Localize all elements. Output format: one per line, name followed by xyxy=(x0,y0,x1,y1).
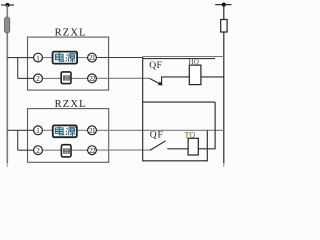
breaker cabinet left edge xyxy=(142,57,144,161)
breaker cabinet top edge xyxy=(143,58,215,60)
terminal circle 21 bottom xyxy=(88,126,97,135)
breaker cabinet bottom edge xyxy=(143,160,208,162)
svg-text:RZXL: RZXL xyxy=(55,27,87,38)
svg-text:HQ: HQ xyxy=(189,58,200,66)
svg-text:2: 2 xyxy=(36,146,40,155)
wire bus to pin1 bottom xyxy=(7,129,34,131)
power module box 电源 top xyxy=(53,52,78,64)
wire pin1 to pin21 internal bottom xyxy=(38,129,92,131)
terminal circle 22 top xyxy=(88,74,97,83)
svg-text:QF: QF xyxy=(150,130,164,140)
breaker cabinet right edge lower xyxy=(206,130,208,161)
svg-text:RZXL: RZXL xyxy=(55,99,87,110)
wire pin21 bottom to right rail xyxy=(92,129,224,131)
terminal circle 22 bottom xyxy=(88,146,97,155)
svg-text:22: 22 xyxy=(89,75,96,83)
wire top-right stub xyxy=(215,4,231,6)
wire tap to pin2 top xyxy=(18,77,34,79)
relay RZXL top box xyxy=(28,37,109,90)
wire tap vertical top xyxy=(17,58,19,79)
wire top-left stub xyxy=(1,4,14,6)
relay RZXL bottom box xyxy=(28,109,109,163)
module small box top xyxy=(61,72,71,84)
wire pin22 bottom to QF contact xyxy=(92,149,150,151)
breaker cabinet divider xyxy=(143,101,215,103)
terminal circle 2 top xyxy=(34,74,43,83)
wire pin22 to QF contact xyxy=(92,77,149,79)
wire tap vertical bottom xyxy=(17,130,19,150)
node junction top-left xyxy=(5,3,9,7)
fuse FU2 right xyxy=(221,20,227,33)
svg-text:1: 1 xyxy=(36,53,40,62)
wire QF to HQ coil xyxy=(161,76,224,78)
power module box 电源 bottom xyxy=(53,125,77,137)
svg-text:21: 21 xyxy=(89,127,96,135)
wire pin21 to right rail xyxy=(92,57,143,59)
svg-text:22: 22 xyxy=(89,147,96,155)
svg-text:2: 2 xyxy=(36,74,40,83)
coil TQ xyxy=(188,138,198,155)
svg-text:21: 21 xyxy=(89,54,96,62)
wire bus to pin1 top xyxy=(7,57,34,59)
terminal circle 21 top xyxy=(88,53,97,62)
svg-text:TQ: TQ xyxy=(185,131,196,140)
fuse FU1 left (gray capsule) xyxy=(4,17,9,33)
wire tap to pin2 bottom xyxy=(18,149,34,151)
breaker cabinet right edge upper xyxy=(214,102,216,149)
module small box bottom xyxy=(61,145,71,157)
wire right rail xyxy=(223,5,225,163)
wire QF to TQ coil xyxy=(167,148,215,150)
coil HQ xyxy=(189,65,201,85)
terminal circle 2 bottom xyxy=(34,146,43,155)
wire left bus xyxy=(6,5,8,163)
wire pin2 to pin22 internal bottom xyxy=(38,149,92,151)
terminal circle 1 top xyxy=(34,53,43,62)
svg-text:QF: QF xyxy=(149,61,162,71)
wire pin2 to pin22 internal xyxy=(38,77,92,79)
wire pin1 to pin21 internal xyxy=(38,57,92,59)
node junction top-right xyxy=(222,3,226,7)
terminal circle 1 bottom xyxy=(34,126,43,135)
svg-text:1: 1 xyxy=(36,126,40,135)
